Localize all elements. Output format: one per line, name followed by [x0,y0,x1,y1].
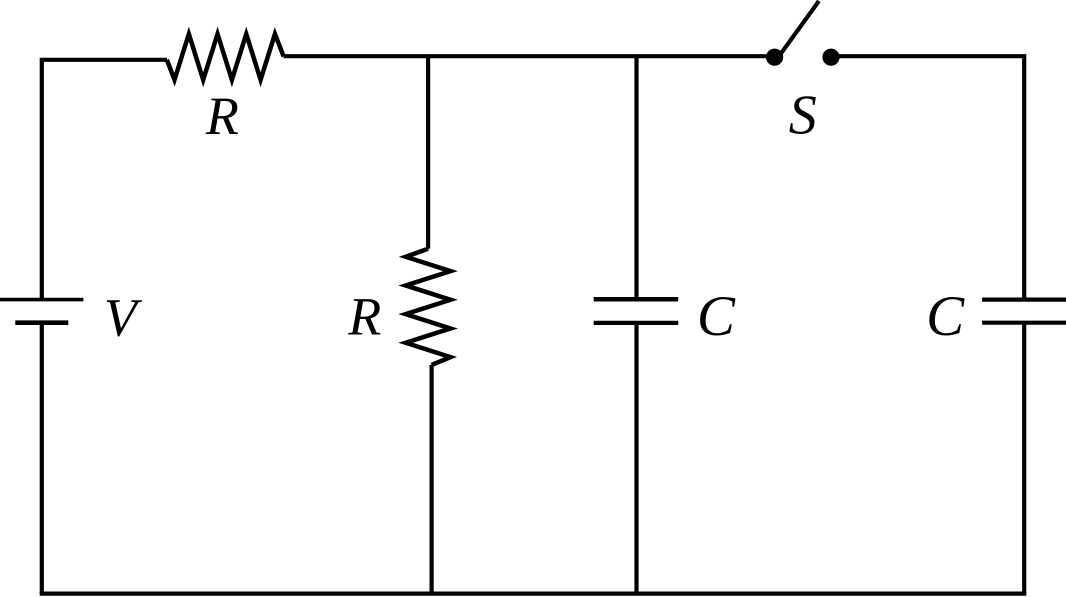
capacitor C (middle) top plate [594,297,679,302]
svg-text:R: R [205,86,239,146]
wire: C branch vertical upper [634,56,638,299]
svg-text:S: S [789,84,817,146]
svg-text:C: C [926,285,965,348]
wire: right wire lower [1022,323,1026,594]
resistor R (top, zigzag) [167,34,284,80]
svg-text:C: C [697,285,736,348]
resistor R (middle, vertical zigzag) [406,249,451,365]
wire: top-right segment (switch to corner) and right wire upper [831,56,1024,299]
capacitor C (right) top plate [982,297,1066,301]
capacitor C (middle) bottom plate [594,321,679,325]
battery V long plate [0,298,83,302]
switch S arm [778,1,819,57]
wire: R branch vertical lower [430,365,434,594]
wire: left wire lower [40,323,44,594]
svg-text:R: R [347,287,381,347]
wire: R branch vertical upper [426,56,430,249]
wire: C branch vertical lower [634,323,638,594]
switch S right contact dot [822,49,839,66]
capacitor C (right) bottom plate [982,321,1066,325]
wire: top-left segment and left wire upper [42,60,167,300]
battery V short plate [15,320,68,325]
switch S left contact dot [766,49,783,66]
wire: bottom wire [40,591,1027,595]
wire: top middle segment (resistor to switch) [284,54,775,58]
